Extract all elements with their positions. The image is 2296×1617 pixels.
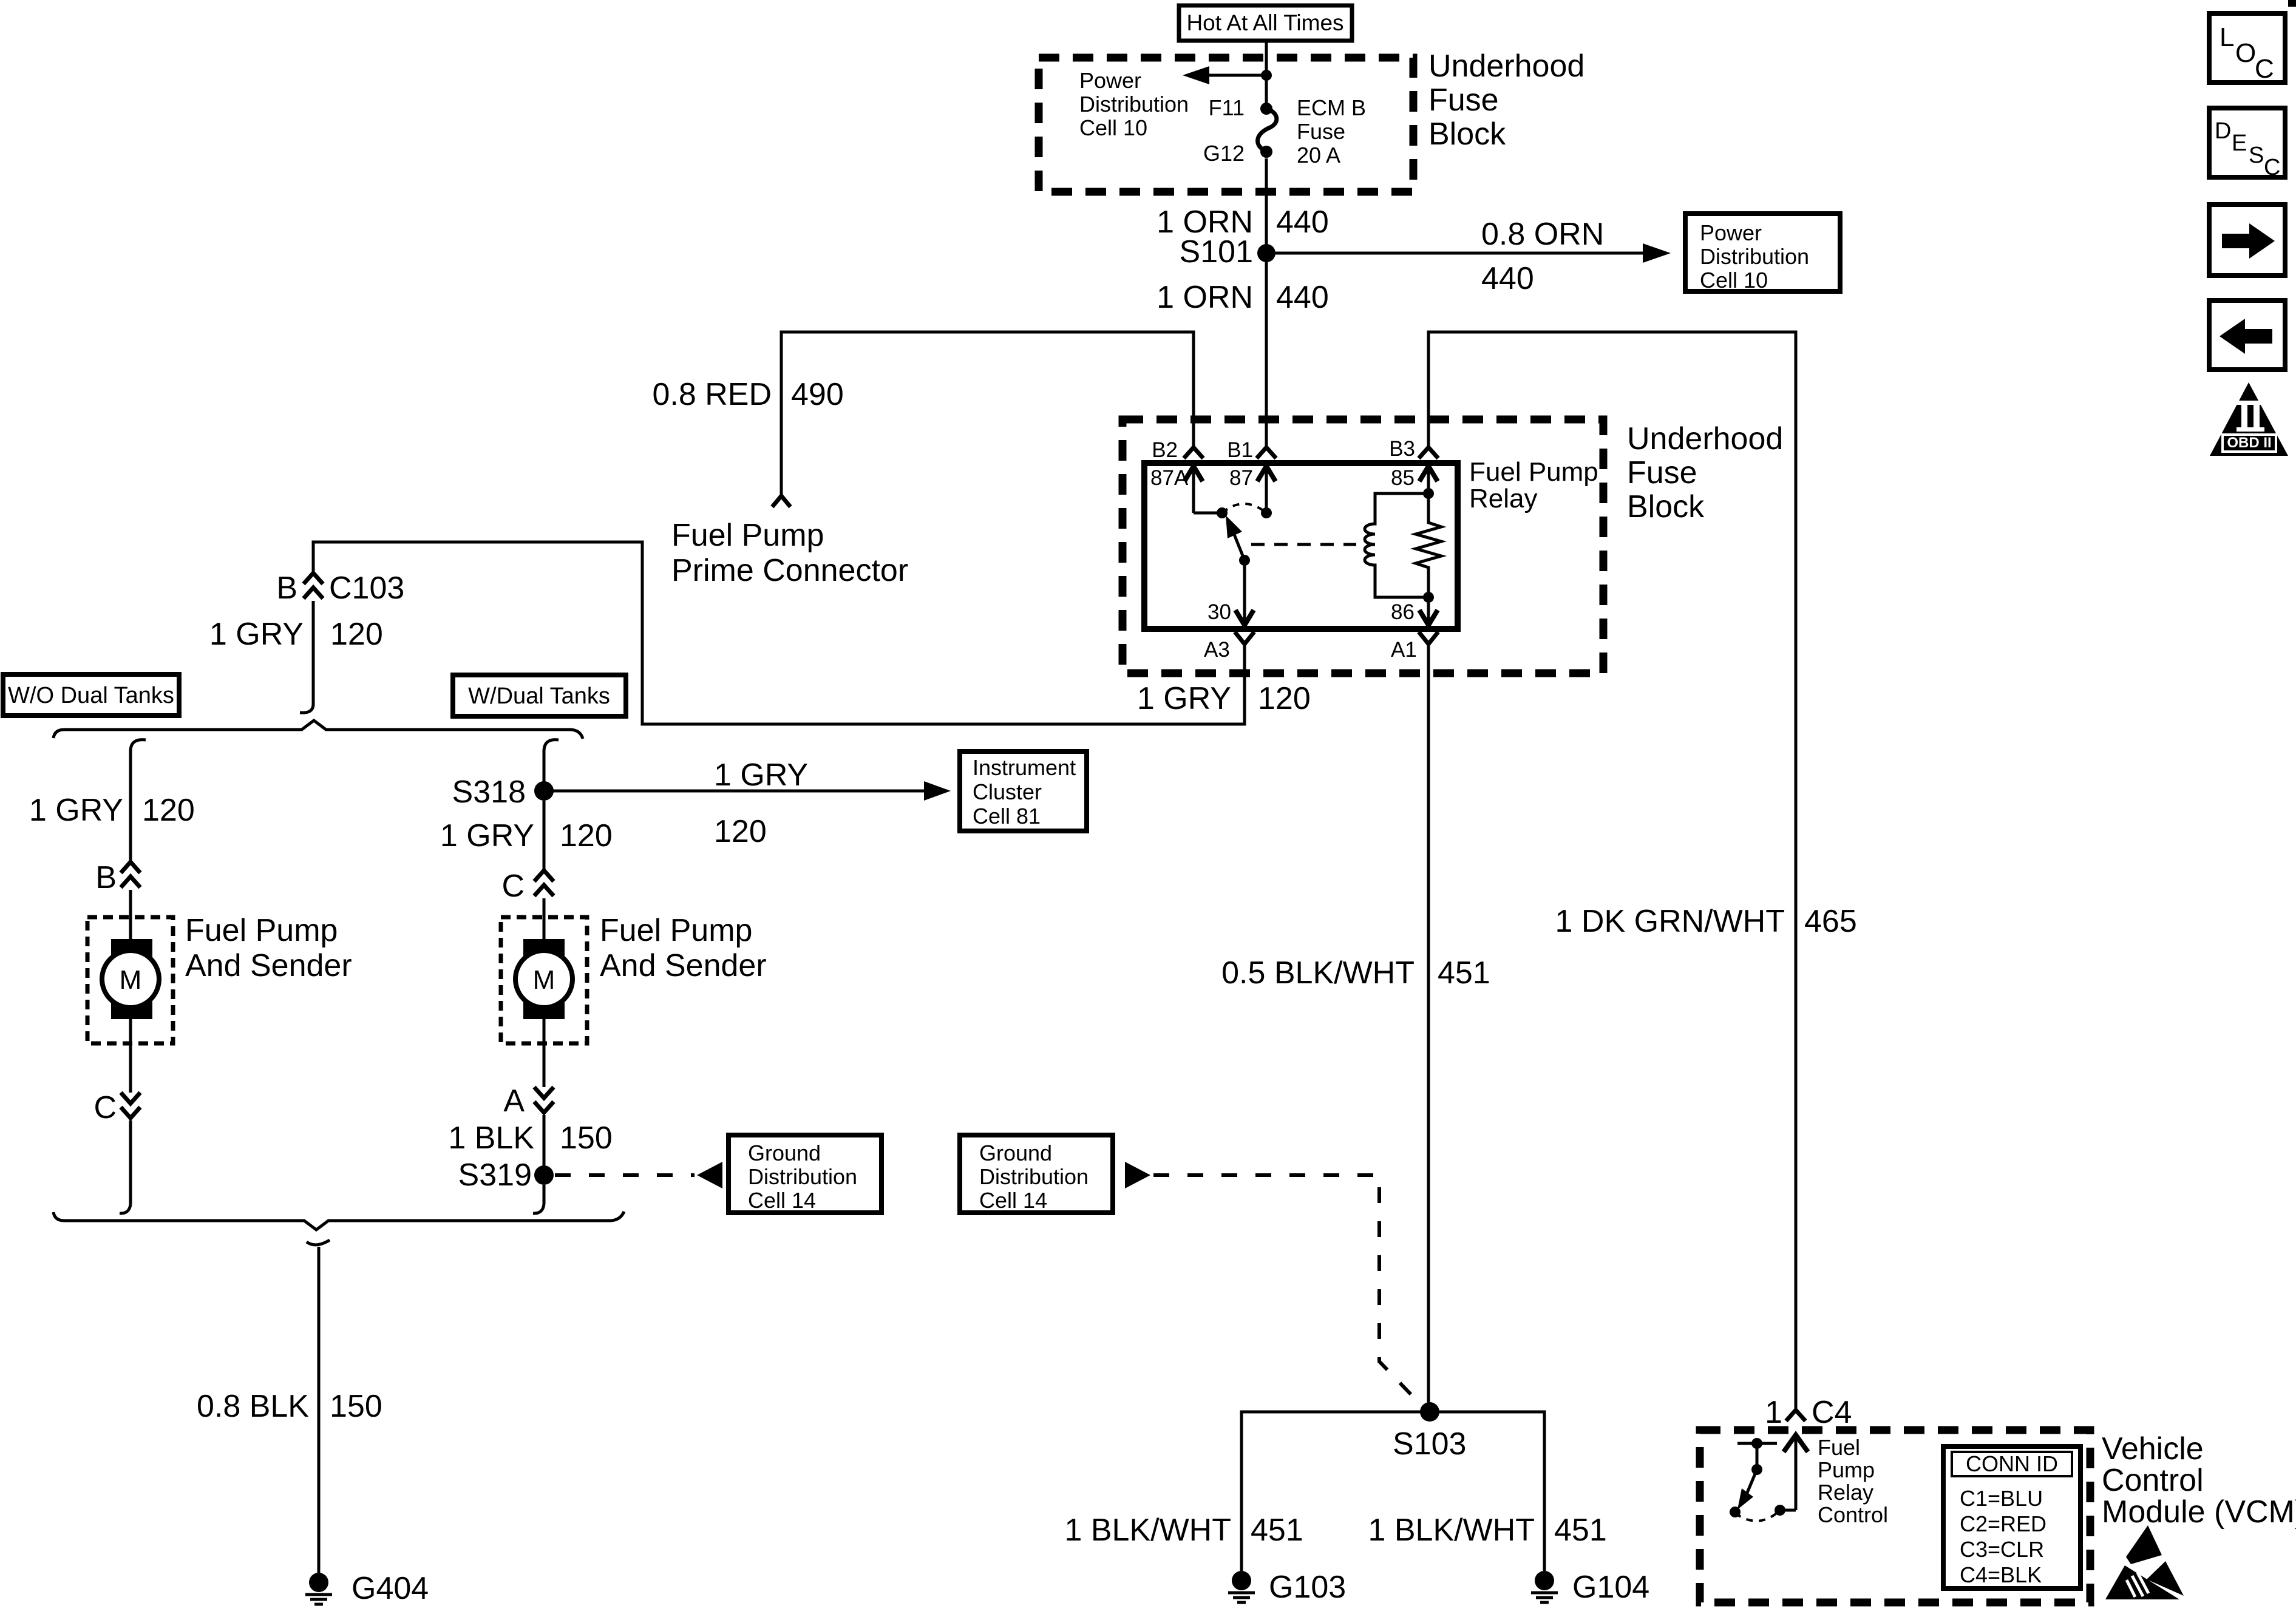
svg-text:Cell 10: Cell 10 [1700, 268, 1768, 293]
svg-text:M: M [120, 965, 142, 995]
svg-text:440: 440 [1276, 280, 1329, 315]
svg-text:Cluster: Cluster [973, 779, 1042, 804]
svg-text:1 BLK/WHT: 1 BLK/WHT [1065, 1513, 1232, 1548]
svg-text:490: 490 [791, 377, 844, 412]
svg-text:M: M [533, 965, 555, 995]
svg-text:1 BLK: 1 BLK [448, 1120, 534, 1156]
svg-text:Cell 14: Cell 14 [979, 1188, 1047, 1213]
svg-text:C2=RED: C2=RED [1960, 1511, 2046, 1536]
svg-text:W/O Dual Tanks: W/O Dual Tanks [8, 683, 174, 708]
svg-text:120: 120 [1258, 681, 1311, 716]
svg-text:440: 440 [1276, 205, 1329, 240]
svg-text:A: A [503, 1083, 525, 1119]
svg-text:Block: Block [1428, 117, 1506, 152]
svg-text:Hot At All Times: Hot At All Times [1186, 10, 1343, 35]
svg-text:S103: S103 [1393, 1426, 1466, 1462]
svg-text:Ground: Ground [979, 1141, 1052, 1165]
svg-text:F11: F11 [1209, 95, 1245, 120]
svg-text:Relay: Relay [1818, 1480, 1873, 1505]
svg-text:OBD II: OBD II [2227, 435, 2271, 451]
svg-text:Prime Connector: Prime Connector [671, 553, 908, 588]
svg-text:0.8 BLK: 0.8 BLK [197, 1389, 309, 1424]
svg-text:1 ORN: 1 ORN [1156, 280, 1253, 315]
svg-text:G104: G104 [1572, 1570, 1649, 1605]
svg-text:0.8 ORN: 0.8 ORN [1481, 217, 1604, 252]
svg-text:451: 451 [1251, 1513, 1303, 1548]
svg-text:C: C [93, 1090, 117, 1125]
svg-text:Distribution: Distribution [979, 1164, 1089, 1189]
svg-text:G12: G12 [1203, 141, 1245, 166]
svg-text:1 GRY: 1 GRY [29, 793, 123, 828]
svg-text:120: 120 [330, 617, 383, 652]
svg-text:Cell 10: Cell 10 [1079, 115, 1147, 140]
svg-text:1 DK GRN/WHT: 1 DK GRN/WHT [1555, 904, 1785, 939]
svg-text:1 GRY: 1 GRY [714, 758, 808, 793]
svg-text:B2: B2 [1152, 438, 1178, 462]
svg-text:Vehicle: Vehicle [2102, 1431, 2204, 1466]
svg-text:B: B [95, 860, 117, 895]
svg-text:Ground: Ground [748, 1141, 821, 1165]
svg-text:Control: Control [2102, 1463, 2204, 1498]
svg-text:Pump: Pump [1818, 1457, 1875, 1482]
svg-text:A3: A3 [1204, 638, 1230, 662]
svg-text:B1: B1 [1227, 438, 1253, 462]
svg-text:L: L [2220, 22, 2234, 52]
svg-text:Distribution: Distribution [1079, 92, 1189, 117]
svg-text:120: 120 [714, 814, 767, 849]
svg-text:C3=CLR: C3=CLR [1960, 1537, 2044, 1562]
svg-text:120: 120 [142, 793, 195, 828]
svg-text:Relay: Relay [1469, 484, 1538, 514]
svg-text:G103: G103 [1269, 1570, 1346, 1605]
svg-text:120: 120 [560, 818, 613, 853]
svg-text:85: 85 [1391, 466, 1415, 490]
svg-text:Fuse: Fuse [1297, 119, 1345, 144]
svg-text:C: C [501, 869, 525, 904]
svg-text:0.5 BLK/WHT: 0.5 BLK/WHT [1221, 955, 1415, 991]
svg-text:86: 86 [1391, 600, 1415, 624]
svg-text:C: C [2255, 54, 2274, 84]
svg-text:Underhood: Underhood [1428, 49, 1584, 84]
svg-text:Power: Power [1079, 68, 1141, 93]
svg-text:Power: Power [1700, 220, 1762, 245]
svg-text:87: 87 [1229, 466, 1253, 490]
svg-text:465: 465 [1804, 904, 1857, 939]
svg-text:D: D [2215, 118, 2231, 144]
svg-text:Fuel Pump: Fuel Pump [671, 518, 824, 553]
svg-text:S: S [2249, 143, 2264, 168]
svg-text:S101: S101 [1180, 234, 1253, 269]
svg-text:C4=BLK: C4=BLK [1960, 1562, 2042, 1587]
svg-text:C103: C103 [329, 571, 404, 606]
svg-text:Fuel Pump: Fuel Pump [600, 913, 752, 948]
svg-text:Fuel Pump: Fuel Pump [1469, 457, 1598, 487]
svg-text:C4: C4 [1812, 1395, 1852, 1430]
svg-text:1 GRY: 1 GRY [440, 818, 534, 853]
svg-text:451: 451 [1438, 955, 1490, 991]
svg-text:W/Dual Tanks: W/Dual Tanks [468, 683, 610, 709]
svg-text:And Sender: And Sender [185, 948, 352, 983]
svg-text:G404: G404 [352, 1571, 429, 1606]
svg-text:150: 150 [560, 1120, 613, 1156]
svg-text:1 BLK/WHT: 1 BLK/WHT [1368, 1513, 1535, 1548]
svg-text:E: E [2232, 131, 2247, 156]
svg-text:Cell 14: Cell 14 [748, 1188, 816, 1213]
svg-text:C: C [2264, 155, 2280, 180]
svg-text:87A: 87A [1150, 466, 1189, 490]
svg-text:O: O [2235, 38, 2256, 68]
svg-text:S318: S318 [452, 775, 526, 810]
svg-text:Control: Control [1818, 1502, 1888, 1527]
svg-text:30: 30 [1207, 600, 1231, 624]
svg-text:Underhood: Underhood [1627, 421, 1783, 456]
svg-text:0.8 RED: 0.8 RED [652, 377, 772, 412]
svg-text:Fuse: Fuse [1428, 83, 1499, 118]
svg-text:440: 440 [1481, 261, 1534, 296]
svg-text:1: 1 [1765, 1395, 1782, 1430]
svg-text:Distribution: Distribution [748, 1164, 857, 1189]
svg-text:B: B [276, 571, 297, 606]
svg-text:1 GRY: 1 GRY [209, 617, 304, 652]
svg-text:150: 150 [330, 1389, 382, 1424]
svg-text:And Sender: And Sender [600, 948, 767, 983]
svg-text:ECM B: ECM B [1297, 95, 1366, 120]
svg-text:Cell 81: Cell 81 [973, 804, 1041, 829]
svg-text:1 GRY: 1 GRY [1137, 681, 1231, 716]
svg-text:B3: B3 [1389, 437, 1415, 461]
svg-text:Fuel: Fuel [1818, 1435, 1860, 1460]
svg-text:Module (VCM): Module (VCM) [2102, 1494, 2296, 1530]
svg-text:S319: S319 [458, 1158, 532, 1193]
svg-text:451: 451 [1554, 1513, 1607, 1548]
svg-text:CONN ID: CONN ID [1966, 1451, 2058, 1476]
svg-text:Block: Block [1627, 489, 1705, 524]
svg-text:Instrument: Instrument [973, 755, 1076, 780]
svg-text:C1=BLU: C1=BLU [1960, 1486, 2043, 1511]
svg-text:20 A: 20 A [1297, 143, 1340, 168]
svg-text:A1: A1 [1391, 638, 1417, 662]
svg-text:Distribution: Distribution [1700, 244, 1809, 269]
svg-text:Fuel Pump: Fuel Pump [185, 913, 338, 948]
svg-text:Fuse: Fuse [1627, 455, 1697, 490]
